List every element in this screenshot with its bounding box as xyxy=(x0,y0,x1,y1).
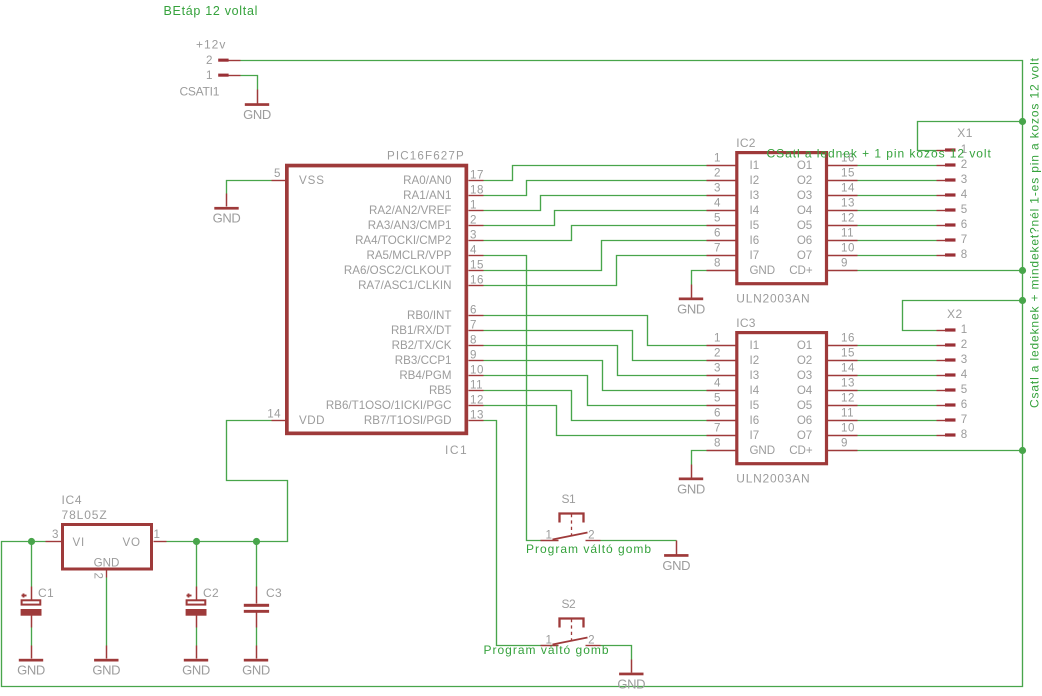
wire IC2 O5 to X1 pin6 xyxy=(858,225,937,227)
ground under IC3 xyxy=(677,465,705,497)
svg-text:GND: GND xyxy=(213,211,241,226)
svg-text:Csatl a ledeknek + mindeket?né: Csatl a ledeknek + mindeket?nél 1-es pin… xyxy=(1028,57,1042,408)
wire IC2 O4 to X1 pin5 xyxy=(858,210,937,212)
wire IC2 O1 to X1 pin2 xyxy=(858,165,937,167)
svg-text:1: 1 xyxy=(961,323,967,336)
wire IC1 RA4 to IC2 I5 xyxy=(484,226,707,241)
svg-text:I1: I1 xyxy=(750,339,760,352)
svg-text:1: 1 xyxy=(714,152,720,165)
svg-text:1: 1 xyxy=(154,528,160,541)
svg-text:RB0/INT: RB0/INT xyxy=(407,309,451,322)
wire IC1 RA3 to IC2 I4 xyxy=(484,211,707,226)
node +12V / X1 pin1 xyxy=(1019,118,1026,125)
capacitor C2 (polarized) xyxy=(186,542,219,646)
connector X2 xyxy=(937,307,968,441)
svg-text:I2: I2 xyxy=(750,174,760,187)
svg-text:GND: GND xyxy=(182,663,210,678)
svg-text:14: 14 xyxy=(841,182,855,195)
svg-text:13: 13 xyxy=(841,197,855,210)
svg-text:4: 4 xyxy=(714,377,721,390)
svg-text:I4: I4 xyxy=(750,384,760,397)
wire IC2 O3 to X1 pin4 xyxy=(858,195,937,197)
svg-text:Program váltó gomb: Program váltó gomb xyxy=(526,542,652,556)
svg-text:1: 1 xyxy=(546,528,552,541)
svg-text:Program váltó gomb: Program váltó gomb xyxy=(484,643,610,657)
svg-text:O3: O3 xyxy=(797,369,812,382)
svg-text:2: 2 xyxy=(588,528,594,541)
svg-text:GND: GND xyxy=(242,663,270,678)
ground under IC4 xyxy=(92,646,120,678)
svg-text:7: 7 xyxy=(714,422,720,435)
svg-text:X2: X2 xyxy=(947,307,963,321)
svg-text:GND: GND xyxy=(94,557,120,570)
svg-text:+12v: +12v xyxy=(196,38,226,52)
svg-text:RA0/AN0: RA0/AN0 xyxy=(403,174,451,187)
svg-text:1: 1 xyxy=(714,332,720,345)
wire IC1 RB3 to IC3 I4 xyxy=(484,361,707,391)
wire IC2 O2 to X1 pin3 xyxy=(858,180,937,182)
svg-text:GND: GND xyxy=(662,558,690,573)
wire IC2 O6 to X1 pin7 xyxy=(858,240,937,242)
svg-text:GND: GND xyxy=(750,264,775,277)
svg-text:GND: GND xyxy=(750,444,775,457)
svg-text:5: 5 xyxy=(714,212,720,225)
svg-text:RB3/CCP1: RB3/CCP1 xyxy=(395,354,452,367)
svg-text:4: 4 xyxy=(714,197,721,210)
svg-text:8: 8 xyxy=(714,437,720,450)
svg-text:VDD: VDD xyxy=(299,414,325,427)
svg-text:RA2/AN2/VREF: RA2/AN2/VREF xyxy=(369,204,451,217)
svg-text:O7: O7 xyxy=(797,249,812,262)
svg-text:O4: O4 xyxy=(797,204,813,217)
wire IC1 RB1 to IC3 I2 xyxy=(484,331,707,361)
svg-text:8: 8 xyxy=(470,334,477,347)
wire IC3 O4 to X2 pin5 xyxy=(858,390,937,392)
svg-text:CD+: CD+ xyxy=(789,444,813,457)
svg-text:I6: I6 xyxy=(750,234,760,247)
svg-text:8: 8 xyxy=(714,257,720,270)
svg-text:7: 7 xyxy=(470,319,477,332)
node 12V rail / C1 xyxy=(28,538,35,545)
wire IC3 O3 to X2 pin4 xyxy=(858,375,937,377)
svg-text:ULN2003AN: ULN2003AN xyxy=(736,471,810,485)
wire IC1 RB4 to IC3 I5 xyxy=(484,376,707,406)
svg-text:11: 11 xyxy=(470,379,483,392)
svg-text:S2: S2 xyxy=(562,597,577,611)
IC IC4 78L05Z voltage regulator xyxy=(46,493,167,579)
node +12V / IC2 CD+ xyxy=(1019,267,1026,274)
svg-text:5: 5 xyxy=(961,203,967,216)
svg-text:2: 2 xyxy=(714,347,720,360)
svg-text:IC3: IC3 xyxy=(736,316,755,330)
svg-text:13: 13 xyxy=(470,409,484,422)
svg-text:I3: I3 xyxy=(750,189,760,202)
svg-text:I7: I7 xyxy=(750,249,760,262)
svg-text:6: 6 xyxy=(714,407,720,420)
wire IC1 RB5 to IC3 I6 xyxy=(484,391,707,421)
svg-text:GND: GND xyxy=(677,481,705,496)
svg-text:2: 2 xyxy=(470,214,477,227)
wire IC2 O7 to X1 pin8 xyxy=(858,255,937,257)
svg-text:IC2: IC2 xyxy=(736,136,755,150)
svg-text:VSS: VSS xyxy=(299,174,325,187)
svg-text:RB2/TX/CK: RB2/TX/CK xyxy=(392,339,452,352)
IC IC1 PIC16F627P xyxy=(267,150,484,458)
svg-text:14: 14 xyxy=(841,362,855,375)
svg-text:RB7/T1OSI/PGD: RB7/T1OSI/PGD xyxy=(364,414,452,427)
svg-text:17: 17 xyxy=(470,169,484,182)
svg-text:IC1: IC1 xyxy=(445,443,468,457)
wire IC3 CD+ to +12V bus xyxy=(858,450,1023,452)
wire S2 pin2 to GND xyxy=(601,646,632,660)
svg-text:RB1/RX/DT: RB1/RX/DT xyxy=(391,324,452,337)
svg-text:12: 12 xyxy=(841,392,855,405)
svg-text:5: 5 xyxy=(274,167,280,180)
svg-text:1: 1 xyxy=(206,69,212,82)
svg-text:RB6/T1OSO/1ICKI/PGC: RB6/T1OSO/1ICKI/PGC xyxy=(326,399,452,412)
svg-text:9: 9 xyxy=(841,257,848,270)
node +12V / IC3 CD+ xyxy=(1019,447,1026,454)
svg-text:3: 3 xyxy=(961,173,967,186)
svg-text:9: 9 xyxy=(841,437,848,450)
svg-text:C2: C2 xyxy=(203,586,219,600)
svg-text:15: 15 xyxy=(470,259,484,272)
node +12V / X2 pin1 xyxy=(1019,297,1026,304)
svg-text:15: 15 xyxy=(841,347,855,360)
ground under S2 xyxy=(617,660,645,692)
svg-text:RA3/AN3/CMP1: RA3/AN3/CMP1 xyxy=(368,219,452,232)
ground under CSATI1 xyxy=(243,90,271,123)
svg-text:11: 11 xyxy=(841,407,854,420)
svg-text:O3: O3 xyxy=(797,189,812,202)
svg-text:GND: GND xyxy=(92,663,120,678)
svg-text:I4: I4 xyxy=(750,204,760,217)
svg-text:O2: O2 xyxy=(797,354,812,367)
svg-text:12: 12 xyxy=(841,212,855,225)
svg-text:3: 3 xyxy=(961,353,967,366)
svg-text:7: 7 xyxy=(961,233,967,246)
svg-text:13: 13 xyxy=(841,377,855,390)
svg-text:I5: I5 xyxy=(750,399,760,412)
svg-text:RA6/OSC2/CLKOUT: RA6/OSC2/CLKOUT xyxy=(344,264,452,277)
svg-text:10: 10 xyxy=(841,242,855,255)
switch S2 Program valto gomb xyxy=(484,597,610,657)
wire IC1 RA0 to IC2 I1 xyxy=(484,166,707,181)
svg-text:GND: GND xyxy=(617,676,645,691)
wire IC1 RA5 to switch S1 xyxy=(484,256,541,541)
svg-text:O4: O4 xyxy=(797,384,813,397)
wire IC1 VSS to GND xyxy=(227,181,272,194)
wire IC1 RA6 to IC2 I6 xyxy=(484,241,707,271)
svg-text:VO: VO xyxy=(123,536,141,549)
svg-text:8: 8 xyxy=(961,428,967,441)
svg-text:14: 14 xyxy=(267,408,281,421)
net label vertical Csatl a ledeknek xyxy=(1028,57,1042,408)
svg-text:9: 9 xyxy=(470,349,477,362)
svg-text:VI: VI xyxy=(73,536,86,549)
svg-text:6: 6 xyxy=(961,398,967,411)
net label BEtap 12 voltal xyxy=(164,4,259,18)
svg-text:O6: O6 xyxy=(797,414,812,427)
svg-text:RA7/ASC1/CLKIN: RA7/ASC1/CLKIN xyxy=(358,279,451,292)
wire IC2 CD+ to +12V bus xyxy=(858,270,1023,272)
wire IC2 GND pin to ground xyxy=(692,271,707,285)
svg-text:C1: C1 xyxy=(38,586,54,600)
svg-text:7: 7 xyxy=(961,413,967,426)
svg-text:CSatl a lednek + 1 pin kozos 1: CSatl a lednek + 1 pin kozos 12 volt xyxy=(767,147,992,161)
ground under S1 xyxy=(662,541,690,573)
svg-text:15: 15 xyxy=(841,167,855,180)
connector CSATI1 xyxy=(180,38,241,99)
svg-text:PIC16F627P: PIC16F627P xyxy=(387,150,465,163)
svg-text:X1: X1 xyxy=(957,126,973,140)
connector X1 xyxy=(937,126,973,261)
ground under IC2 xyxy=(677,285,705,317)
svg-text:O5: O5 xyxy=(797,219,812,232)
svg-text:RB4/PGM: RB4/PGM xyxy=(399,369,451,382)
wire IC4 GND pin to ground xyxy=(106,578,108,646)
wire IC3 O6 to X2 pin7 xyxy=(858,420,937,422)
svg-text:GND: GND xyxy=(677,301,705,316)
svg-text:RA1/AN1: RA1/AN1 xyxy=(403,189,451,202)
svg-text:I5: I5 xyxy=(750,219,760,232)
svg-text:I1: I1 xyxy=(750,159,760,172)
wire IC1 RA1 to IC2 I2 xyxy=(484,181,707,196)
svg-text:8: 8 xyxy=(961,248,967,261)
wire X1 pin1 to +12V bus xyxy=(918,122,1023,151)
svg-text:2: 2 xyxy=(714,167,720,180)
wire IC1 RA2 to IC2 I3 xyxy=(484,196,707,211)
svg-text:O5: O5 xyxy=(797,399,812,412)
svg-text:O7: O7 xyxy=(797,429,812,442)
wire IC1 RB7 to switch S2 xyxy=(484,421,541,646)
svg-text:RA5/MCLR/VPP: RA5/MCLR/VPP xyxy=(366,249,451,262)
wire IC3 O5 to X2 pin6 xyxy=(858,405,937,407)
svg-text:3: 3 xyxy=(714,362,720,375)
svg-text:CD+: CD+ xyxy=(789,264,813,277)
wire IC1 VDD to 5V rail (regulator output) xyxy=(167,421,288,542)
svg-text:5: 5 xyxy=(961,383,967,396)
svg-text:3: 3 xyxy=(714,182,720,195)
svg-text:16: 16 xyxy=(470,274,484,287)
svg-text:O1: O1 xyxy=(797,159,812,172)
svg-text:6: 6 xyxy=(961,218,967,231)
wire IC1 RB6 to IC3 I7 xyxy=(484,406,707,436)
ground under C1 xyxy=(17,646,45,678)
wire IC3 O7 to X2 pin8 xyxy=(858,435,937,437)
svg-text:16: 16 xyxy=(841,332,855,345)
svg-text:S1: S1 xyxy=(562,492,577,506)
svg-text:10: 10 xyxy=(841,422,855,435)
capacitor C1 (polarized) xyxy=(21,542,54,646)
IC IC3 ULN2003AN xyxy=(707,316,858,485)
svg-text:4: 4 xyxy=(470,244,477,257)
wire IC3 O1 to X2 pin2 xyxy=(858,345,937,347)
svg-text:2: 2 xyxy=(961,338,967,351)
svg-text:C3: C3 xyxy=(266,586,282,600)
node 5V rail / C2 xyxy=(193,538,200,545)
wire IC1 RB0 to IC3 I1 xyxy=(484,316,707,346)
svg-text:O2: O2 xyxy=(797,174,812,187)
svg-text:I7: I7 xyxy=(750,429,760,442)
svg-text:3: 3 xyxy=(52,528,58,541)
wire IC3 O2 to X2 pin3 xyxy=(858,360,937,362)
ground under C3 xyxy=(242,646,270,678)
svg-text:78L05Z: 78L05Z xyxy=(62,508,108,522)
svg-text:4: 4 xyxy=(961,188,968,201)
svg-text:1: 1 xyxy=(470,199,477,212)
svg-text:18: 18 xyxy=(470,184,484,197)
svg-text:11: 11 xyxy=(841,227,854,240)
svg-text:GND: GND xyxy=(243,107,271,122)
svg-text:RA4/TOCKI/CMP2: RA4/TOCKI/CMP2 xyxy=(355,234,451,247)
svg-text:O1: O1 xyxy=(797,339,812,352)
svg-text:2: 2 xyxy=(92,573,105,579)
svg-text:12: 12 xyxy=(470,394,484,407)
svg-text:CSATI1: CSATI1 xyxy=(180,85,220,99)
ground under C2 xyxy=(182,646,210,678)
wire IC3 GND pin to ground xyxy=(692,451,707,465)
svg-text:I3: I3 xyxy=(750,369,760,382)
svg-text:4: 4 xyxy=(961,368,968,381)
svg-text:6: 6 xyxy=(714,227,720,240)
svg-text:10: 10 xyxy=(470,364,484,377)
IC IC2 ULN2003AN xyxy=(707,136,858,305)
svg-text:O6: O6 xyxy=(797,234,812,247)
svg-text:I6: I6 xyxy=(750,414,760,427)
ground under IC1 VSS xyxy=(213,194,241,226)
svg-text:GND: GND xyxy=(17,663,45,678)
svg-text:ULN2003AN: ULN2003AN xyxy=(736,291,810,305)
svg-text:5: 5 xyxy=(714,392,720,405)
wire IC1 RB2 to IC3 I3 xyxy=(484,346,707,376)
svg-text:IC4: IC4 xyxy=(62,493,83,507)
wire IC1 RA7 to IC2 I7 xyxy=(484,256,707,286)
node 5V rail / C3 xyxy=(253,538,260,545)
wire S1 pin2 to GND xyxy=(601,540,677,542)
svg-text:2: 2 xyxy=(206,54,212,67)
wire X2 pin1 to +12V bus xyxy=(903,301,1023,331)
switch S1 Program valto gomb xyxy=(526,492,652,556)
svg-text:RB5: RB5 xyxy=(429,384,452,397)
net label CSatl a lednek xyxy=(767,147,992,161)
svg-text:6: 6 xyxy=(470,304,477,317)
capacitor C3 xyxy=(244,542,282,646)
svg-text:3: 3 xyxy=(470,229,477,242)
svg-text:I2: I2 xyxy=(750,354,760,367)
svg-text:BEtáp 12 voltal: BEtáp 12 voltal xyxy=(164,4,259,18)
wire CSATI1 pin1 to GND xyxy=(241,76,258,90)
svg-text:7: 7 xyxy=(714,242,720,255)
